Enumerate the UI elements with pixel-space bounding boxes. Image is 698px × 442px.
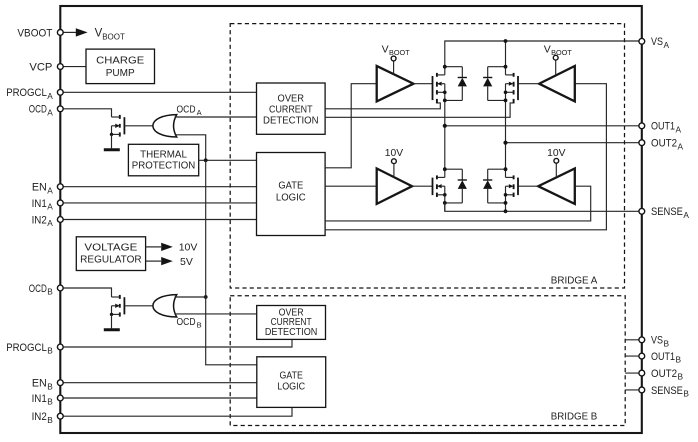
pin VSB [639,335,670,349]
or-gate U6 (OCD B wired-or) [153,295,177,317]
wire M3 source to sense rail [444,195,446,212]
label over current detection A [263,94,319,127]
pin OCDB [29,283,63,297]
svg-text:PROGCL: PROGCL [6,342,47,354]
pin OUT2B [639,368,684,382]
node label 10V rail [179,242,198,254]
pin ENA [32,182,63,196]
node label OCDB signal [177,317,202,330]
pin SENSEA [639,206,690,220]
pin PROGCLB [6,342,63,356]
transistor M2 high-side right MOSFET [506,73,519,104]
pin VSA [639,36,670,50]
junction D3 taps [443,167,447,205]
wire M4 source to sense rail [505,195,507,212]
wire IN2B to gate logic B [60,407,292,416]
value label 10V at U5 [547,148,565,159]
svg-text:OVER: OVER [278,94,305,105]
junction OUT2A node [503,141,507,145]
pin U5 10V supply circle [554,158,559,163]
svg-text:SENSE: SENSE [651,206,683,218]
pin IN2A [32,214,64,228]
wire OUT2A line [506,142,642,144]
wire Q2 gate to OR gate B [124,305,152,307]
wire U4 supply lead [555,60,557,75]
svg-text:VBOOT: VBOOT [17,27,52,39]
wire OR-B top input from thermal bus [175,296,206,298]
wire U3 output to M3 gate [412,185,432,187]
pin VBOOT [17,27,63,39]
value label VBOOT at U4 [544,43,573,57]
wire OUT2B stub [625,372,642,374]
pin OUT2A [639,138,684,152]
wire U5 supply lead [555,163,557,177]
wire OR-A top input from over current detection A [175,116,257,118]
svg-text:OUT2: OUT2 [651,138,677,150]
wire PROGCLB to over current detection B [60,339,292,347]
svg-text:GATE: GATE [280,370,304,381]
transistor M3 low-side left MOSFET [433,175,445,197]
node label OCDA signal [177,104,202,117]
wire OUT1A line [445,125,642,127]
wire Q1 gate to OR gate A [124,125,152,127]
svg-text:BRIDGE B: BRIDGE B [551,412,598,423]
wire VCP to charge pump [60,66,86,68]
junction Q2 body-source [110,313,113,316]
svg-text:GATE: GATE [278,181,303,192]
svg-text:A: A [676,124,682,134]
svg-text:SENSE: SENSE [651,385,683,397]
wire gate logic A to driver U4 [325,84,606,230]
svg-text:A: A [47,202,53,212]
wire VBOOT arrow [63,28,87,36]
svg-text:OCD: OCD [29,104,47,116]
node label VBOOT net [95,28,125,42]
wire OCD-A sense to M2 [325,103,513,117]
svg-text:A: A [197,108,202,117]
transistor M1 high-side left MOSFET [433,73,445,104]
svg-text:PROGCL: PROGCL [6,87,47,99]
svg-text:B: B [47,381,53,391]
label BRIDGE B [551,412,598,423]
wire gate logic A to driver U2 [325,84,377,168]
svg-text:B: B [197,320,202,329]
wire VSB stub [625,339,642,341]
svg-text:B: B [678,372,684,382]
svg-text:V: V [382,43,389,55]
junction thermal bus A [204,158,208,162]
pin ENB [32,378,63,392]
bridge A dashed boundary box [230,24,624,288]
wire Q2 source to ground [111,314,113,328]
wire OR-A bottom input from thermal bus [175,135,206,161]
svg-text:EN: EN [32,182,47,194]
svg-text:BOOT: BOOT [102,32,125,41]
transistor Q2 OCD-B open-drain MOSFET [112,295,125,317]
block gate logic B [257,357,326,408]
wire gate logic A to driver U5 [325,186,591,221]
wire gate logic A to driver U3 [325,185,377,187]
pin PROGCLA [6,87,63,101]
pin OUT1B [639,351,682,365]
wire thermal bus down to bridge B [205,160,207,297]
svg-text:OUT2: OUT2 [651,368,677,380]
wire IN2A to gate logic A [60,219,256,221]
svg-text:OCD: OCD [177,104,196,115]
wire OCDA pin to transistor Q1 drain [60,109,111,117]
junction top rail at M2 [504,39,508,43]
wire ENB to gate logic B [60,382,256,384]
block voltage regulator [76,237,145,271]
svg-text:B: B [664,338,670,348]
svg-text:LOGIC: LOGIC [276,193,306,204]
pin IN1B [32,393,64,407]
svg-text:A: A [47,185,53,195]
svg-text:B: B [683,389,689,399]
pin IN2B [32,411,64,425]
pin OUT1A [639,121,682,135]
value label 10V at U3 [385,148,403,159]
wire Q1 source to ground [111,134,113,148]
pin OCDA [29,104,63,118]
wire right half-bridge rail [505,92,507,177]
op-amp U5 gate driver low-side right [538,169,575,204]
ground symbol A [104,148,120,151]
svg-text:CURRENT: CURRENT [269,105,313,116]
junction SENSEA at M4 rail [504,209,508,213]
bridge B dashed boundary box [230,296,625,426]
pin SENSEB [639,385,690,399]
label over current detection B [265,308,318,338]
svg-text:OUT1: OUT1 [651,351,675,363]
diode D1 body diode of M1 [445,67,467,101]
svg-text:EN: EN [32,378,47,390]
op-amp U2 gate driver high-side left [377,66,414,101]
svg-text:VS: VS [651,335,663,347]
label voltage regulator [80,243,142,266]
wire ENA to gate logic A [60,186,256,188]
block thermal protection [128,144,198,176]
svg-text:5V: 5V [180,256,193,268]
svg-text:A: A [47,107,53,117]
wire M2 drain to top rail [505,41,507,75]
svg-text:IN2: IN2 [32,214,47,226]
svg-text:10V: 10V [179,242,198,254]
svg-text:B: B [47,415,53,425]
svg-text:A: A [678,141,684,151]
svg-text:CHARGE: CHARGE [96,56,144,67]
svg-text:THERMAL: THERMAL [140,150,187,161]
svg-text:IN2: IN2 [32,411,47,423]
svg-text:A: A [47,91,53,101]
junction D1 anode-cathode taps [443,65,447,103]
junction D2 taps [504,65,508,103]
svg-text:IN1: IN1 [32,198,47,210]
svg-text:OCD: OCD [177,317,196,328]
wire PROGCLA to over current detection A [60,91,256,93]
svg-text:A: A [683,210,689,220]
pin U4 VBOOT supply circle [553,55,558,60]
svg-text:B: B [676,355,682,365]
wire U4 output to M2 gate [518,83,539,85]
or-gate U1 (OCD A wired-or) [153,115,177,137]
node label 5V rail [180,256,193,268]
pin U3 10V supply circle [392,159,397,164]
wire VSA top rail [445,41,642,75]
wire IN1A to gate logic A [60,202,256,204]
svg-text:B: B [47,346,53,356]
diode D3 body diode of M3 [445,169,467,203]
svg-text:DETECTION: DETECTION [265,327,318,338]
svg-text:V: V [544,43,551,55]
svg-text:IN1: IN1 [32,393,47,405]
wire OCDB pin to transistor Q2 drain [60,288,111,297]
wire thermal bus to gate logic B [206,297,257,365]
wire OUT1B stub [625,355,642,357]
wire OCD-A sense to M1 [325,103,440,109]
label charge pump [96,56,144,80]
svg-text:BOOT: BOOT [389,48,410,57]
diode D2 body diode of M2 [483,67,505,101]
svg-text:LOGIC: LOGIC [277,382,305,393]
label BRIDGE A [551,275,598,286]
svg-text:A: A [664,40,670,50]
transistor Q1 OCD-A open-drain MOSFET [112,115,125,137]
label thermal protection [132,150,196,172]
pin U2 VBOOT supply circle [391,56,396,61]
transistor M4 low-side right MOSFET [506,175,519,197]
diode D4 body diode of M4 [483,169,505,203]
label gate logic B [277,370,305,392]
block over current detection B [257,306,326,340]
block over current detection A [257,83,326,134]
wire 5V output arrow [146,257,173,265]
svg-text:BRIDGE A: BRIDGE A [551,275,598,286]
svg-text:VCP: VCP [29,62,52,74]
ground symbol B [104,328,120,331]
svg-text:BOOT: BOOT [551,48,572,57]
wire OR-B bottom input from over current detection B [175,313,257,315]
label gate logic A [276,181,306,204]
wire SENSEA line [445,203,642,211]
junction Q1 body-source [110,133,113,136]
wire SENSEB stub [625,389,642,391]
svg-text:VS: VS [651,36,663,48]
value label VBOOT at U2 [382,43,411,57]
op-amp U4 gate driver high-side right [539,66,575,101]
svg-text:VOLTAGE: VOLTAGE [84,243,137,254]
svg-text:PROTECTION: PROTECTION [132,160,196,171]
block charge pump [86,49,155,84]
junction OUT1A node [443,124,447,128]
svg-text:PUMP: PUMP [106,68,135,79]
svg-text:REGULATOR: REGULATOR [80,255,142,266]
svg-text:OUT1: OUT1 [651,121,675,133]
block gate logic A [257,153,326,236]
svg-text:OCD: OCD [29,283,47,295]
junction D4 taps [504,167,508,205]
wire U2 supply lead [393,61,395,74]
wire left half-bridge rail [444,92,446,177]
svg-text:B: B [47,397,53,407]
svg-text:A: A [47,218,53,228]
wire U5 output to M4 gate [518,185,538,187]
junction thermal bus at OR-B [204,295,208,299]
wire thermal protection to gate logic A [199,159,257,161]
svg-text:B: B [47,287,53,297]
pin VCP [29,62,63,74]
svg-text:DETECTION: DETECTION [263,115,319,126]
pin IN1A [32,198,64,212]
wire IN1B to gate logic B [60,397,256,399]
op-amp U3 gate driver low-side left [377,169,412,204]
wire U2 output to M1 gate [414,83,433,85]
wire 10V output arrow [146,243,173,251]
svg-text:10V: 10V [547,148,565,159]
svg-text:10V: 10V [385,148,403,159]
wire U3 supply lead [393,164,395,177]
